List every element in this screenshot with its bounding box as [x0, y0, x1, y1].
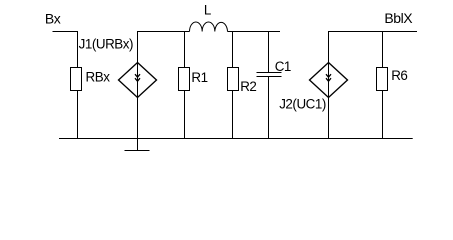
svg-text:C1: C1 — [275, 59, 291, 74]
wire R6 bottom — [382, 91, 384, 140]
svg-text:RBx: RBx — [86, 70, 111, 85]
wire R2 top — [232, 32, 234, 68]
wire J1 bottom — [137, 98, 139, 140]
svg-text:R6: R6 — [391, 68, 407, 83]
svg-text:R2: R2 — [240, 79, 256, 94]
wire R2 bottom — [232, 91, 234, 140]
resistor R2 — [228, 68, 239, 91]
ground — [137, 139, 139, 152]
wire C1 bottom — [268, 77, 270, 140]
dependent source J2 diamond — [310, 63, 348, 98]
wire top rail middle segment — [228, 31, 281, 33]
resistor R1 — [179, 68, 190, 91]
wire R1 top — [184, 32, 186, 68]
dependent source J1 diamond — [119, 63, 157, 98]
wire top rail right — [329, 32, 418, 63]
svg-text:L: L — [204, 3, 211, 18]
wire R1 bottom — [184, 91, 186, 140]
svg-text:BblX: BblX — [384, 10, 413, 26]
svg-text:R1: R1 — [191, 70, 207, 85]
wire R6 top — [382, 32, 384, 68]
svg-text:J1(URBx): J1(URBx) — [79, 36, 133, 51]
arrow J2 — [326, 74, 331, 77]
resistor RBx — [71, 68, 82, 91]
resistor R6 — [377, 68, 388, 91]
svg-text:J2(UC1): J2(UC1) — [279, 97, 326, 112]
inductor L coil — [190, 22, 228, 32]
svg-text:Bx: Bx — [45, 11, 61, 27]
wire RBx bottom — [77, 91, 79, 140]
wire J2 through — [328, 63, 330, 98]
wire top rail left segment — [138, 32, 190, 63]
arrow J1 — [135, 74, 140, 77]
node Bx input wire — [53, 32, 78, 68]
wire bottom rail — [59, 138, 413, 140]
wire J2 bottom — [328, 98, 330, 140]
wire J1 through — [137, 63, 139, 98]
capacitor C1 — [257, 72, 282, 74]
wire C1 top — [268, 32, 270, 73]
